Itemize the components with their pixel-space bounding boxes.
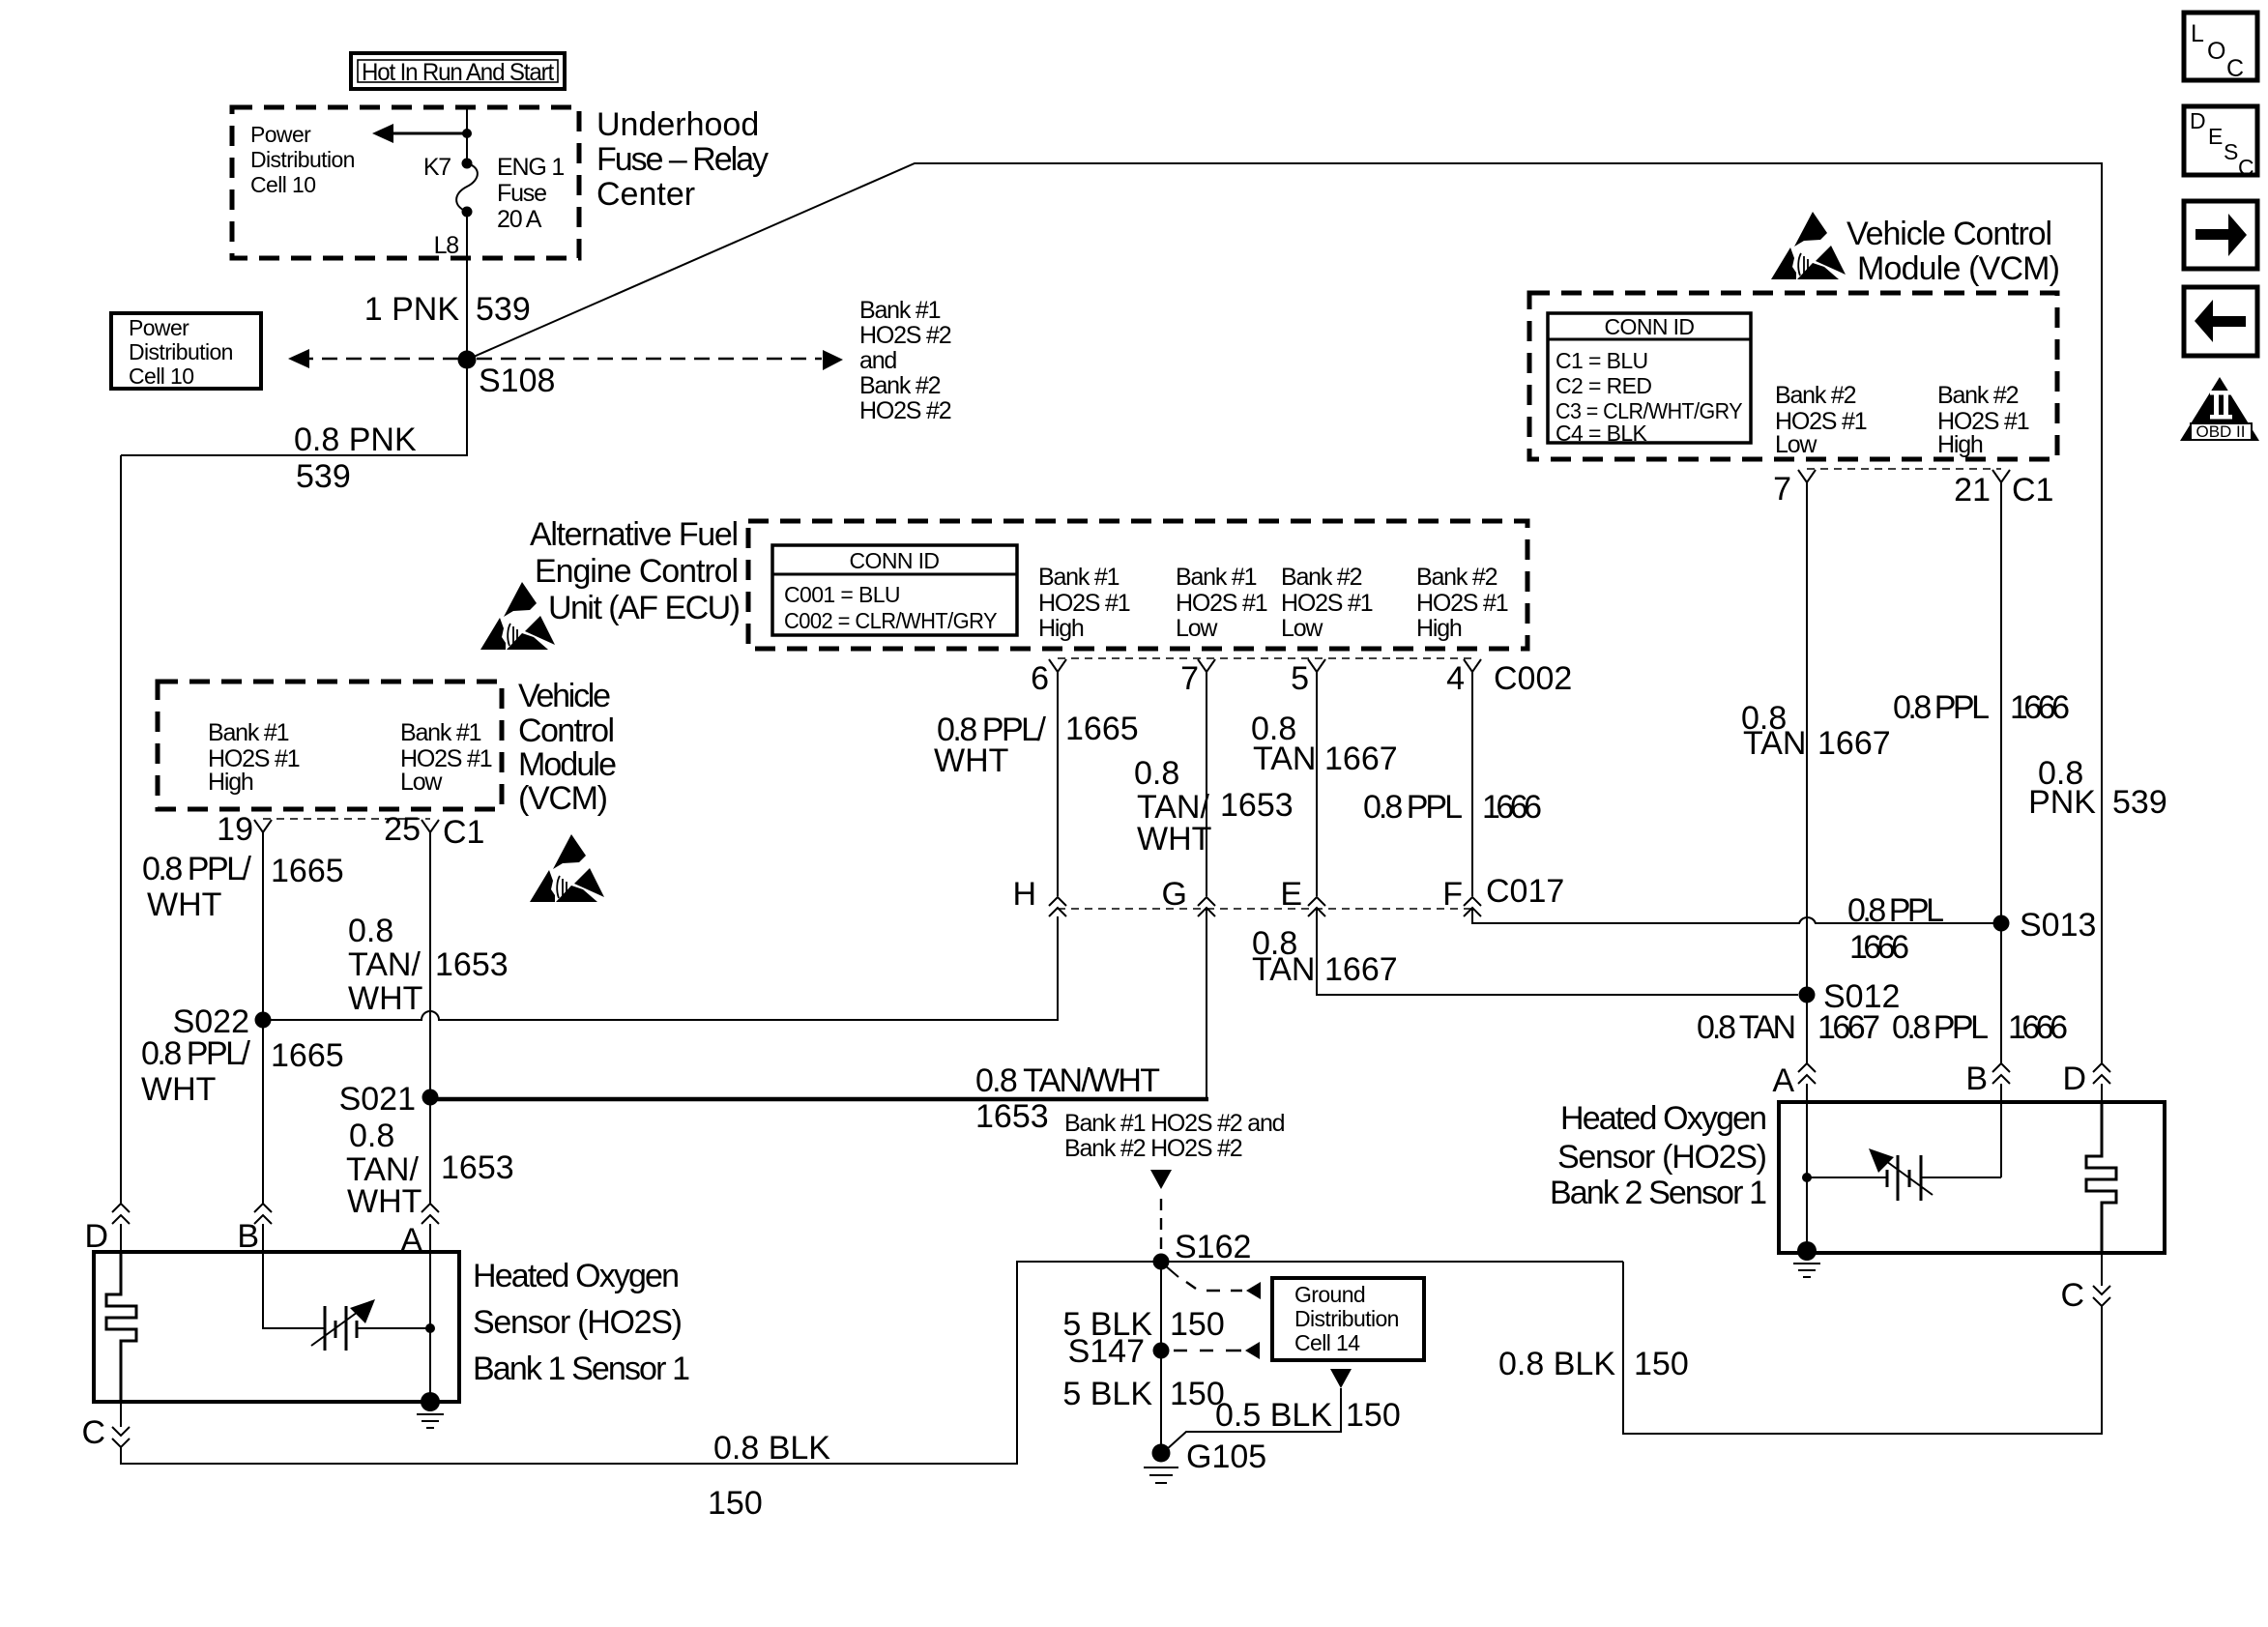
svg-text:0.8 BLK: 0.8 BLK [713,1430,830,1467]
node K7 junction dot [462,129,472,138]
power feed label box "Hot In Run And Start" [351,53,565,89]
wire: pin 19 to S022 to HO2S B (0.8 PPL/WHT 1665) [262,832,264,1205]
svg-text:0.8 PPL: 0.8 PPL [1892,1009,1989,1046]
svg-text:0.8 BLK: 0.8 BLK [1498,1346,1615,1382]
pin 19 Y connector [254,820,272,832]
svg-text:B: B [1965,1060,1988,1097]
component box: AF ECU (dashed) [748,521,1527,649]
svg-text:S021: S021 [339,1081,416,1118]
svg-text:HO2S #1: HO2S #1 [1416,590,1508,617]
svg-text:L: L [2191,20,2204,47]
svg-text:4: 4 [1446,660,1465,697]
label: Vehicle Control Module (VCM) left [518,678,617,817]
svg-text:25: 25 [384,811,421,848]
svg-text:1665: 1665 [1065,711,1139,747]
svg-text:0.8: 0.8 [348,913,393,949]
svg-text:Module (VCM): Module (VCM) [1857,250,2060,287]
label: Bank #1 HO2S #1 Low (VCM pin 25) [400,719,492,796]
label: Bank #1 HO2S #2 and Bank #2 HO2S #2 [859,297,951,424]
svg-text:0.8 TAN/WHT: 0.8 TAN/WHT [975,1062,1160,1099]
svg-text:Bank 1 Sensor 1: Bank 1 Sensor 1 [473,1351,690,1387]
svg-text:Heated Oxygen: Heated Oxygen [473,1258,680,1294]
label: Bank #2 HO2S #1 Low (VCM pin 7) [1775,382,1867,458]
svg-text:WHT: WHT [347,1183,422,1220]
svg-text:0.8: 0.8 [1134,755,1179,792]
svg-text:0.8: 0.8 [349,1118,394,1154]
svg-text:S: S [2224,139,2238,164]
svg-text:Fuse: Fuse [497,180,546,207]
svg-text:HO2S #1: HO2S #1 [1176,590,1267,617]
wires into bank2 box [1806,1084,1808,1102]
svg-text:High: High [1937,431,1983,458]
wire label 0.8 PPL/WHT 1665 (at H riser) [934,711,1139,779]
svg-text:S013: S013 [2020,907,2096,944]
svg-text:Bank #2: Bank #2 [1416,564,1497,591]
svg-text:Distribution: Distribution [129,339,233,364]
connector G [1198,897,1215,916]
icon OBD II triangle [2180,377,2259,441]
svg-text:Bank #1 HO2S #2 and: Bank #1 HO2S #2 and [1064,1110,1285,1137]
svg-text:OBD II: OBD II [2195,422,2245,441]
pin 7 (VCM C1) Y connector [1798,470,1816,482]
svg-text:1666: 1666 [2008,1009,2068,1046]
wire: S021 branch to AF ECU G (0.8 TAN/WHT 1653, heavy) [430,1097,1208,1102]
svg-text:CONN ID: CONN ID [1605,314,1695,339]
component box: Vehicle Control Module VCM (top right, dashed) [1529,293,2057,459]
connector F [1464,897,1481,916]
splice S108 [458,351,477,369]
connector E [1308,897,1325,916]
ESD symbol (left VCM) [530,834,604,902]
svg-text:TAN/: TAN/ [348,946,421,983]
svg-text:ENG 1: ENG 1 [497,154,564,181]
svg-text:D: D [2190,108,2205,133]
wire label 0.8 PNK 539 (right vertical) [2028,755,2167,821]
svg-text:Distribution: Distribution [1294,1306,1399,1331]
svg-text:Bank #1: Bank #1 [1176,564,1257,591]
svg-text:Bank #1: Bank #1 [400,719,481,746]
svg-text:0.8 PPL/: 0.8 PPL/ [142,851,252,887]
component box: Underhood Fuse-Relay Center (dashed) [232,107,579,258]
svg-text:WHT: WHT [141,1071,216,1108]
svg-text:TAN: TAN [1252,951,1315,988]
dashed wire: S147 to ground distribution [1174,1350,1241,1351]
connector D (bank2) [2093,1063,2110,1084]
svg-text:Bank #2 HO2S #2: Bank #2 HO2S #2 [1064,1135,1242,1162]
bank1 internal: heater resistor on D-C [106,1252,136,1402]
svg-text:Power: Power [250,122,311,147]
label: Heated Oxygen Sensor (HO2S) Bank 2 Sensor 1 [1550,1100,1767,1211]
label: ENG 1 Fuse 20 A [497,154,564,233]
svg-text:D: D [2062,1060,2086,1097]
fuse ENG 1 20A symbol [462,159,473,169]
svg-text:Sensor (HO2S): Sensor (HO2S) [1557,1139,1767,1176]
svg-text:(VCM): (VCM) [518,780,608,817]
component box: Heated Oxygen Sensor HO2S Bank 1 Sensor 1 [94,1252,459,1402]
svg-text:D: D [84,1218,108,1255]
svg-text:HO2S #1: HO2S #1 [1038,590,1130,617]
wire: pin 25 to S021 to HO2S A (0.8 TAN/WHT 1653) [429,832,431,1205]
wire: S108 down and left (0.8 PNK 539) [121,360,467,455]
svg-text:Low: Low [1176,615,1218,642]
wire: left vertical feed down to HO2S bank1 D [120,455,122,1205]
svg-text:Module: Module [518,746,617,783]
svg-text:0.8 PPL: 0.8 PPL [1363,789,1463,826]
connector C017 row: thin dashed line [1058,908,1472,910]
connector B (bank2) [1992,1063,2010,1084]
svg-text:1666: 1666 [1482,789,1542,826]
svg-text:L8: L8 [434,232,459,259]
svg-text:High: High [1416,615,1462,642]
svg-text:Bank #2: Bank #2 [1281,564,1362,591]
svg-text:Cell 14: Cell 14 [1294,1330,1360,1355]
svg-text:20 A: 20 A [497,206,542,233]
dashed wire: S162 to ground distribution [1165,1265,1178,1277]
wire: VCM pin7 down through S012 to bank2 A [1806,482,1808,1064]
wire: S108 diagonal feed to right side [467,163,2102,1064]
label: Alternative Fuel Engine Control Unit (AF ECU) [530,516,741,626]
svg-text:Engine Control: Engine Control [535,553,739,590]
connector B (bank1) [254,1204,272,1224]
svg-text:Low: Low [400,769,443,796]
svg-text:Sensor (HO2S): Sensor (HO2S) [473,1304,683,1341]
pin 6 Y connector [1049,659,1066,672]
svg-text:Bank #2: Bank #2 [859,372,941,399]
svg-text:C: C [81,1414,105,1451]
wire: fuse output down to S108 [466,212,468,360]
CONN ID table (VCM) [1548,313,1751,446]
svg-text:Vehicle: Vehicle [518,678,611,714]
wire: 0.5 BLK 150 to G105 [1166,1388,1341,1450]
svg-text:1667: 1667 [1817,1009,1880,1046]
svg-text:WHT: WHT [934,742,1008,779]
svg-text:Bank #2: Bank #2 [1937,382,2019,409]
connector C1 row (VCM): thin dashed line [1807,468,2001,470]
svg-text:and: and [859,347,896,374]
svg-text:CONN ID: CONN ID [850,548,940,573]
svg-text:Bank 2 Sensor 1: Bank 2 Sensor 1 [1550,1175,1767,1211]
connector D (bank1) [112,1204,130,1224]
svg-text:6: 6 [1031,660,1049,697]
connector H [1049,897,1066,916]
svg-text:C1: C1 [2012,472,2053,508]
splice S022 [255,1012,272,1029]
svg-text:E: E [2208,124,2223,149]
svg-text:WHT: WHT [348,980,422,1017]
connector A (bank1) [422,1204,439,1224]
wire: S022 branch to AF ECU H (hop over 1653 wire) [263,916,1058,1020]
svg-text:Bank #2: Bank #2 [1775,382,1856,409]
svg-text:150: 150 [1170,1306,1225,1343]
wire label 0.8 TAN 1667 (E riser lower) [1252,925,1398,988]
off-page arrow down to S162 [1150,1170,1172,1189]
splice S147 [1153,1343,1170,1359]
svg-text:G105: G105 [1186,1438,1266,1475]
svg-text:Bank #1: Bank #1 [1038,564,1119,591]
svg-text:0.8 PPL/: 0.8 PPL/ [141,1035,251,1072]
wire label 0.8 PPL/WHT 1665 (upper left) [142,851,344,923]
bank1 internal: A wire to ground [429,1252,431,1402]
label: Heated Oxygen Sensor (HO2S) Bank 1 Sensor 1 [473,1258,690,1387]
svg-text:C: C [2060,1277,2084,1314]
svg-text:0.8 TAN: 0.8 TAN [1697,1009,1796,1046]
icon DESC box [2184,106,2257,180]
wire label 0.8 TAN 1667 (E riser upper) [1251,711,1398,777]
svg-text:Ground: Ground [1294,1282,1365,1307]
component box: Vehicle Control Module VCM (left, dashed) [158,682,502,809]
svg-text:Hot In Run And Start: Hot In Run And Start [362,59,554,86]
wires into bank1 box [120,1224,122,1252]
svg-text:TAN: TAN [1743,725,1806,762]
bank2 internal ground [1797,1241,1817,1261]
label: Bank #1 HO2S #2 and Bank #2 HO2S #2 (S162 ref) [1064,1110,1285,1162]
svg-text:Low: Low [1281,615,1323,642]
label: Bank #2 HO2S #1 High (pin 4) [1416,564,1508,642]
svg-text:Cell 10: Cell 10 [129,363,193,389]
svg-text:S147: S147 [1068,1333,1145,1370]
svg-text:C: C [2238,155,2253,180]
svg-text:B: B [237,1218,259,1255]
bank2 internal: variable battery (sense element) [1807,1148,2001,1201]
wire label 0.8 TAN/WHT 1653 (upper) [348,913,509,1017]
svg-text:21: 21 [1954,472,1991,508]
svg-text:C4 = BLK: C4 = BLK [1556,421,1648,446]
svg-text:150: 150 [708,1485,763,1522]
wire: branch arrow to power distribution [391,132,467,135]
svg-text:Bank #1: Bank #1 [208,719,289,746]
wire: E to S012 (0.8 TAN 1667) [1317,908,1798,995]
svg-text:C: C [2226,55,2244,82]
wire: AF ECU pin5 down to E [1316,672,1318,896]
wire label 0.8 TAN/WHT 1653 (lower, above A) [346,1118,514,1220]
svg-text:Distribution: Distribution [250,147,355,172]
wire: AF ECU pin7 down to G [1206,672,1207,896]
wire: bank1 C down [120,1402,122,1427]
ground G105 [1152,1444,1171,1463]
svg-text:WHT: WHT [147,886,221,923]
svg-text:7: 7 [1180,660,1199,697]
svg-text:0.8 PPL: 0.8 PPL [1893,689,1990,726]
svg-text:C1: C1 [443,814,484,851]
label: Bank #2 HO2S #1 High (VCM pin 21) [1937,382,2029,458]
wire: feed into fuse K7 [466,107,468,163]
wire label 0.8 TAN/WHT 1653 (at G riser) [1134,755,1294,857]
svg-text:539: 539 [476,291,531,328]
label: Bank #2 HO2S #1 Low (pin 5) [1281,564,1373,642]
component box: Power Distribution Cell 10 (left) [111,313,261,389]
svg-text:1666: 1666 [2010,689,2070,726]
svg-text:1653: 1653 [975,1098,1049,1135]
bank1 internal: variable battery (sense element) [311,1299,430,1351]
svg-text:5 BLK: 5 BLK [1062,1376,1152,1412]
svg-text:7: 7 [1773,471,1791,508]
svg-text:E: E [1280,876,1302,913]
svg-text:1653: 1653 [435,946,509,983]
off-page arrow below ground distribution box [1330,1369,1352,1388]
splice S012 [1799,987,1816,1003]
svg-text:Low: Low [1775,431,1817,458]
svg-text:TAN: TAN [1253,741,1316,777]
svg-text:Alternative Fuel: Alternative Fuel [530,516,739,553]
svg-text:PNK: PNK [2028,784,2096,821]
connector A (bank2) [1798,1063,1816,1084]
bank2 internal: B wire [2000,1102,2002,1177]
svg-text:HO2S #2: HO2S #2 [859,397,951,424]
svg-text:Power: Power [129,315,189,340]
wire: S162 down to S147 (5 BLK 150) [1160,1262,1162,1453]
icon LOC box [2184,13,2257,82]
svg-text:1653: 1653 [1220,787,1294,824]
bank1 internal ground [421,1392,440,1411]
svg-text:1667: 1667 [1324,741,1398,777]
pin 25 Y connector [422,820,439,832]
label: Bank #1 HO2S #1 High (VCM pin 19) [208,719,300,796]
svg-text:1653: 1653 [441,1149,514,1186]
wire label 0.8 TAN 1667 (pin7 riser) [1741,700,1891,762]
svg-text:Vehicle Control: Vehicle Control [1846,216,2052,252]
wire label 0.8 PPL/WHT 1665 (lower left) [141,1035,344,1108]
wire: F to S013 (0.8 PPL 1666, hop over pin7 wire) [1472,908,2001,923]
svg-text:H: H [1012,876,1036,913]
svg-text:Control: Control [518,712,615,749]
svg-text:539: 539 [296,458,351,495]
component box: Heated Oxygen Sensor HO2S Bank 2 Sensor 1 [1779,1102,2165,1253]
svg-text:1665: 1665 [271,1037,344,1074]
connector C (bank1) [112,1427,130,1447]
svg-text:G: G [1162,876,1187,913]
splice S013 [1993,915,2010,932]
svg-text:C1 = BLU: C1 = BLU [1556,348,1648,373]
pin 4 Y connector [1464,659,1481,672]
wire: AF ECU pin4 down to F [1471,672,1473,896]
svg-text:Underhood: Underhood [596,106,759,143]
svg-text:Unit (AF ECU): Unit (AF ECU) [548,590,741,626]
label: Underhood Fuse-Relay Center [596,106,769,213]
CONN ID table (AF ECU) [772,545,1017,635]
svg-text:HO2S #1: HO2S #1 [1281,590,1373,617]
svg-text:S108: S108 [479,363,555,399]
pin 21 (VCM C1) Y connector [1992,470,2010,482]
svg-text:Cell 10: Cell 10 [250,172,315,197]
svg-text:1667: 1667 [1324,951,1398,988]
svg-text:150: 150 [1634,1346,1689,1382]
svg-text:19: 19 [217,811,253,848]
icon right-arrow box [2184,201,2257,269]
svg-text:A: A [1772,1062,1794,1099]
wire labels 0.8 TAN 1667 / 0.8 PPL 1666 (above bank2) [1697,1009,2068,1046]
svg-text:0.8 PPL: 0.8 PPL [1847,892,1944,929]
splice S162 [1153,1254,1170,1270]
svg-text:S162: S162 [1175,1229,1251,1265]
svg-text:5: 5 [1291,660,1309,697]
svg-text:150: 150 [1346,1397,1401,1434]
svg-text:Fuse – Relay: Fuse – Relay [596,141,769,178]
pin 5 Y connector [1308,659,1325,672]
svg-text:539: 539 [2112,784,2167,821]
svg-text:O: O [2207,38,2225,65]
connector C1 row (left VCM): thin dashed line [263,818,430,820]
svg-text:Heated Oxygen: Heated Oxygen [1560,1100,1767,1137]
wire: bank1 C to ground run (0.8 BLK 150) [121,1262,1623,1464]
icon left-arrow box [2184,287,2257,356]
svg-text:1 PNK: 1 PNK [364,291,460,328]
pin 7 Y connector [1198,659,1215,672]
svg-text:0.5 BLK: 0.5 BLK [1215,1397,1332,1434]
wire: bank2 C down [2101,1253,2103,1286]
svg-text:WHT: WHT [1137,821,1211,857]
bank1 internal: B wire [263,1252,325,1328]
svg-text:1665: 1665 [271,853,344,889]
svg-text:C2 = RED: C2 = RED [1556,373,1651,398]
wire: AF ECU pin6 down to H [1057,672,1059,896]
label: Power Distribution Cell 10 (inside underhood box) [250,122,355,197]
svg-text:Bank #1: Bank #1 [859,297,941,324]
label: Bank #1 HO2S #1 Low (pin 7) [1176,564,1267,642]
svg-text:High: High [1038,615,1084,642]
component box: Ground Distribution Cell 14 [1272,1278,1424,1360]
svg-text:C001 = BLU: C001 = BLU [784,582,900,607]
splice S021 [422,1090,439,1106]
bank2 internal: heater resistor on D-C [2086,1102,2116,1253]
svg-text:C002: C002 [1494,660,1572,697]
dashed wire: S108 to HO2S #2 circuits (right arrow) [477,358,822,361]
connector C (bank2) [2093,1286,2110,1306]
connector C002 row: thin dashed line [1058,657,1472,659]
svg-text:K7: K7 [423,154,451,181]
wire: VCM pin21 down through S013 to bank2 B [2000,482,2002,1064]
dashed wire: S108 to power distribution (left arrow) [302,358,458,361]
svg-text:HO2S #2: HO2S #2 [859,322,951,349]
svg-text:High: High [208,769,253,796]
bank2 internal: A wire to sense element [1806,1102,1808,1251]
ESD symbol (AF ECU) [480,582,555,650]
wire: bank2 C to ground run [1623,1262,2102,1434]
svg-text:C017: C017 [1486,873,1564,910]
svg-text:150: 150 [1170,1376,1225,1412]
svg-text:0.8 PNK: 0.8 PNK [294,421,417,458]
label: Bank #1 HO2S #1 High (pin 6) [1038,564,1130,642]
svg-text:1666: 1666 [1849,929,1909,966]
ESD symbol (VCM top) [1771,212,1846,279]
svg-text:1667: 1667 [1817,725,1891,762]
svg-text:Center: Center [596,176,695,213]
svg-text:C002 = CLR/WHT/GRY: C002 = CLR/WHT/GRY [784,608,997,633]
svg-text:F: F [1442,876,1463,913]
